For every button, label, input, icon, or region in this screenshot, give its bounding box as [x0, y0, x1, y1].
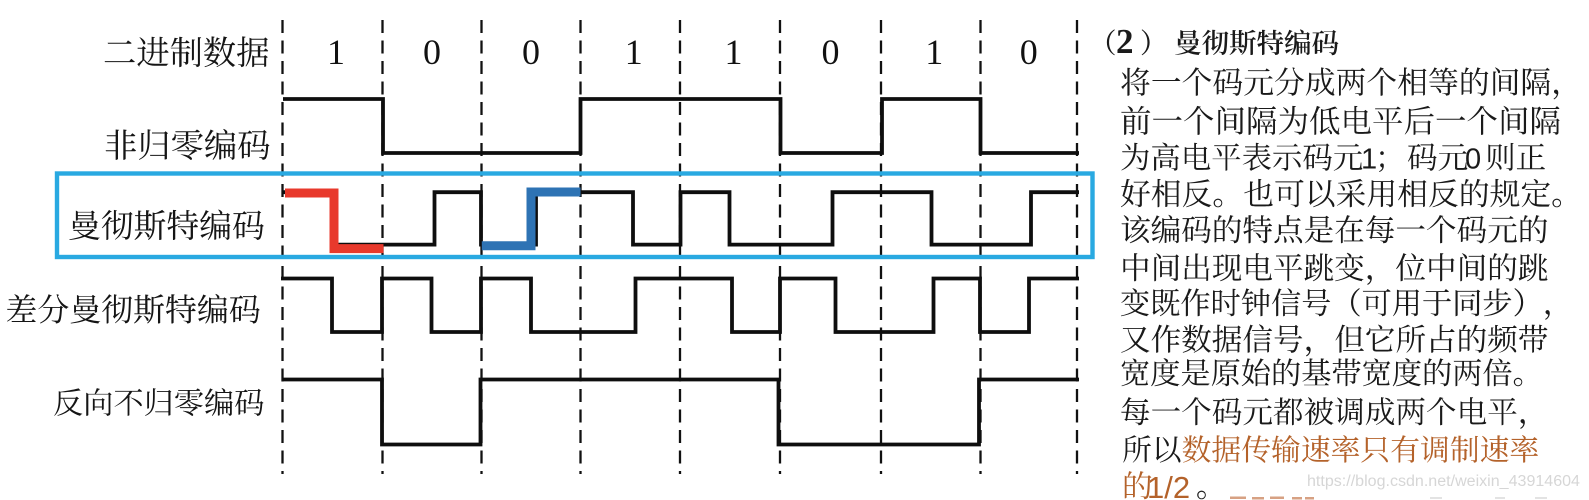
svg-text:0: 0: [522, 32, 540, 72]
dashed bit-boundary line 9: [1076, 20, 1078, 474]
cropped glyph tops at bottom edge: [1230, 497, 1314, 500]
red highlight: Manchester bit 1: [285, 193, 384, 249]
dashed bit-boundary line 6: [779, 20, 781, 474]
body line 1: [1121, 67, 1558, 99]
svg-text:https://blog.csdn.net/weixin_4: https://blog.csdn.net/weixin_43914604: [1307, 473, 1580, 490]
body line 12 (orange 的1/2): [1125, 471, 1152, 499]
dashed bit-boundary line 5: [679, 20, 681, 474]
svg-text:0: 0: [1465, 143, 1481, 175]
svg-text:1: 1: [327, 32, 345, 72]
row label 反向不归零编码 (NRZI): [54, 388, 263, 416]
svg-text:1: 1: [725, 32, 743, 72]
svg-text:1: 1: [625, 32, 643, 72]
row label 二进制数据 (binary data): [105, 36, 269, 67]
dashed bit-boundary line 7: [880, 20, 882, 474]
body line 3: [1121, 142, 1362, 171]
Differential Manchester waveform (差分曼彻斯特编码): [281, 279, 1079, 333]
Manchester waveform (曼彻斯特编码): [283, 192, 1079, 244]
cyan highlight box around Manchester row: [57, 174, 1093, 258]
svg-text:0: 0: [822, 32, 840, 72]
body line 5: [1122, 215, 1548, 243]
NRZI waveform (反向不归零编码): [283, 380, 1079, 445]
body line 7: [1121, 288, 1550, 320]
svg-text:1/2: 1/2: [1147, 470, 1190, 500]
body line 6: [1123, 253, 1547, 285]
svg-text:1: 1: [925, 32, 943, 72]
svg-text:0: 0: [423, 32, 441, 72]
dashed bit-boundary line 4: [579, 20, 581, 474]
row label 曼彻斯特编码 (Manchester): [69, 210, 264, 241]
row label 差分曼彻斯特编码 (Differential Manchester): [7, 294, 260, 324]
svg-text:2: 2: [1116, 22, 1134, 61]
row label 非归零编码 (NRZ): [106, 129, 270, 160]
dashed bit-boundary line 8: [979, 20, 981, 474]
svg-text:1: 1: [1361, 143, 1377, 175]
dashed bit-boundary line 3: [480, 20, 482, 474]
body line 11 (orange emphasised): [1123, 435, 1180, 462]
title （2）曼彻斯特编码: [1107, 29, 1115, 55]
body line 9: [1122, 358, 1523, 386]
body line 4: [1121, 179, 1561, 207]
body line 2: [1121, 106, 1559, 135]
svg-text:0: 0: [1020, 32, 1038, 72]
body line 8: [1121, 324, 1547, 356]
dashed bit-boundary line 2: [381, 20, 383, 474]
dashed bit-boundary line 1: [281, 20, 283, 474]
blue highlight: Manchester bit 3: [482, 192, 581, 246]
NRZ waveform (非归零编码): [283, 99, 1079, 153]
body line 10: [1121, 397, 1525, 429]
